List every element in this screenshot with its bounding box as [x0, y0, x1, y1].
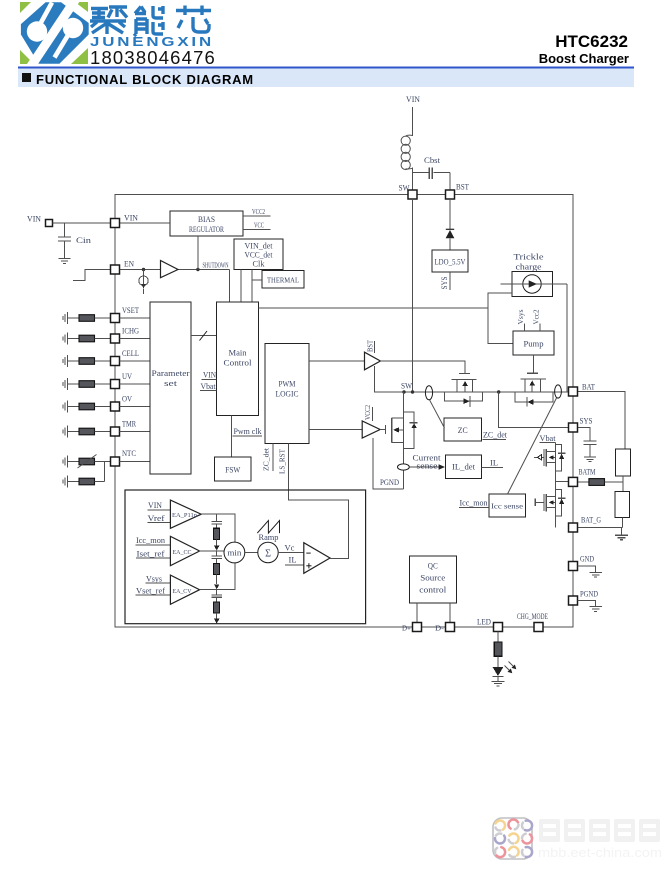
pin EN [111, 265, 120, 274]
svg-text:PGND: PGND [580, 589, 598, 599]
ground (GND pin) [589, 572, 602, 577]
wire EN internal [120, 269, 230, 271]
svg-text:LOGIC: LOGIC [276, 389, 299, 399]
pin SYS [569, 423, 578, 432]
svg-text:BAT_G: BAT_G [581, 515, 601, 525]
svg-text:D+: D+ [402, 624, 411, 633]
left pin group: OV [63, 401, 150, 413]
net Vcc2 stub [539, 324, 541, 332]
svg-text:min: min [227, 548, 242, 558]
IC boundary [115, 195, 573, 628]
resistor BATM [578, 481, 589, 483]
block Main Control [217, 302, 259, 416]
svg-text:VIN: VIN [148, 500, 162, 510]
left pin group: TMR [63, 426, 150, 438]
min circle [224, 542, 245, 563]
svg-text:IL: IL [289, 554, 297, 564]
svg-text:OV: OV [122, 394, 133, 404]
wire main control to FSW [231, 416, 233, 458]
wire det to main control [240, 269, 242, 302]
svg-text:Icc sense: Icc sense [491, 502, 524, 511]
svg-text:Pwm clk: Pwm clk [234, 426, 263, 436]
svg-text:IL: IL [490, 458, 498, 468]
node LS drain [402, 390, 405, 393]
svg-text:GND: GND [580, 554, 594, 564]
svg-text:EA_P11n: EA_P11n [172, 512, 198, 519]
svg-text:SHUTDOWN: SHUTDOWN [203, 261, 229, 270]
net Vc [278, 552, 304, 554]
wire VIN pin to bias [120, 222, 171, 224]
wire vcc2 rail to trickle and pump [488, 293, 513, 344]
current source trickle [523, 275, 541, 293]
transistor M1 (sync MOSFET) [445, 374, 483, 407]
svg-text:BST: BST [456, 182, 470, 192]
svg-text:Trickle: Trickle [514, 252, 544, 262]
wire min to sum [245, 552, 258, 554]
company logo mark [20, 0, 89, 70]
left pin group: NTC thermistor [63, 455, 150, 469]
ground (SYS cap) [584, 457, 596, 462]
driver BST (high side) [309, 360, 365, 362]
svg-text:ZC_det: ZC_det [262, 447, 271, 471]
svg-text:FSW: FSW [225, 465, 240, 475]
svg-text:TMR: TMR [122, 419, 136, 429]
pin BAT_G [569, 523, 578, 532]
capacitor SYS [578, 428, 597, 457]
svg-text:Source: Source [420, 573, 445, 583]
svg-text:PWM: PWM [279, 379, 296, 389]
svg-text:mbb.eet-china.com: mbb.eet-china.com [538, 845, 662, 860]
wire VIN input [53, 222, 111, 224]
svg-text:D-: D- [435, 624, 445, 633]
wire trickle output to BAT [566, 284, 568, 392]
current source I1 [139, 270, 148, 295]
svg-text:VCC2: VCC2 [252, 207, 265, 216]
node SW rail [411, 390, 414, 393]
net Vsys stub [523, 324, 525, 332]
net VCC output [243, 229, 270, 231]
svg-text:Vsys: Vsys [146, 573, 162, 583]
pin GND [569, 562, 578, 571]
svg-text:Parameter: Parameter [152, 368, 190, 378]
svg-text:sense: sense [417, 461, 438, 471]
svg-text:Icc_mon: Icc_mon [136, 535, 166, 545]
inductor L1 [401, 135, 412, 169]
wire zc diagonal [430, 400, 445, 428]
resistor R2 [615, 492, 630, 518]
wire shutdown to main control [228, 270, 230, 303]
svg-text:Cin: Cin [76, 235, 92, 245]
LED chain [493, 632, 504, 682]
compensation chain 1 [212, 514, 222, 550]
svg-text:Pump: Pump [524, 339, 544, 349]
transistor M2 (output MOSFET) [515, 355, 553, 407]
svg-text:Vref: Vref [148, 513, 165, 523]
svg-text:Vsys: Vsys [516, 309, 525, 324]
net VCC2 output [243, 215, 270, 217]
svg-text:BIAS: BIAS [198, 214, 215, 224]
block BIAS REGULATOR [170, 211, 243, 236]
block Pump [513, 331, 554, 355]
compensation chain 3 [212, 590, 222, 624]
svg-text:SW: SW [401, 381, 412, 391]
sum circle [258, 542, 278, 562]
svg-text:Main: Main [229, 348, 248, 358]
bus parameter to main control [191, 335, 217, 337]
svg-text:IL_det: IL_det [452, 462, 476, 472]
wire thermal [252, 279, 262, 281]
wire SYS net [499, 392, 569, 428]
svg-text:set: set [164, 378, 178, 388]
svg-text:LS_RST: LS_RST [278, 449, 287, 474]
left pin group: UV [63, 378, 150, 390]
svg-text:EA_CC: EA_CC [173, 549, 192, 556]
comparator PWM [304, 543, 330, 574]
wire icc diagonal [508, 398, 557, 494]
node SYS tap [497, 390, 500, 393]
wire QC to D- [449, 603, 451, 622]
header rule [18, 67, 634, 69]
sawtooth Ramp [257, 521, 279, 534]
wire BATM junction [556, 481, 569, 483]
svg-text:EA_CV: EA_CV [173, 588, 192, 595]
resistor NTC lower [63, 462, 104, 488]
svg-text:Iset_ref: Iset_ref [137, 548, 165, 558]
ground (LED) [492, 681, 505, 686]
sense oval IL [398, 464, 410, 470]
left pin group: CELL [63, 355, 150, 367]
svg-text:VIN: VIN [203, 370, 216, 380]
wire comparator output [330, 557, 349, 559]
pin BAT [569, 387, 578, 396]
buffer EN [161, 261, 179, 278]
pin VIN [111, 219, 120, 228]
block IL_det [446, 455, 482, 478]
svg-text:BATM: BATM [579, 467, 596, 477]
wire BAT to resistor divider [578, 392, 626, 449]
wire SW vertical [412, 199, 414, 392]
sense oval ZC [425, 386, 432, 400]
company name Chinese glyph approximations [90, 6, 211, 37]
sense oval Icc [555, 385, 562, 398]
node EN junction [142, 268, 145, 271]
wire EA1 output [201, 514, 235, 542]
svg-text:Control: Control [224, 358, 253, 368]
wire LS source to PGND [373, 438, 404, 489]
LED light arrows [505, 662, 517, 674]
svg-text:ZC: ZC [458, 425, 468, 435]
transistor M3 (low side MOSFET) [380, 392, 418, 449]
net ZC_det stub [272, 444, 274, 472]
svg-text:Cbst: Cbst [424, 155, 441, 165]
svg-text:PGND: PGND [380, 477, 399, 487]
svg-text:UV: UV [122, 371, 133, 381]
svg-text:ZC_det: ZC_det [483, 430, 508, 440]
wire EA3 output [200, 563, 235, 590]
svg-text:THERMAL: THERMAL [267, 276, 299, 285]
wire BAT_G net [578, 527, 623, 529]
svg-text:Clk: Clk [253, 259, 266, 269]
wire det2 to main control [251, 269, 253, 302]
svg-text:SYS: SYS [439, 276, 449, 289]
wire QC to D+ [416, 603, 418, 622]
pin LED [494, 623, 503, 632]
compensation chain 2 [212, 551, 222, 589]
svg-text:VIN: VIN [406, 94, 420, 104]
capacitor Cin [58, 223, 71, 258]
svg-text:VSET: VSET [122, 305, 140, 315]
transistor Q2 (battery PMOS lower) [535, 482, 565, 528]
resistor R1 [616, 449, 631, 476]
svg-text:SYS: SYS [580, 416, 593, 426]
pin D+ [413, 623, 422, 632]
block VIN_det VCC_det Clk [234, 239, 283, 269]
watermark logo arcs [495, 820, 532, 858]
svg-text:Icc_mon: Icc_mon [460, 498, 489, 508]
pin BST [446, 190, 455, 199]
rail VCC2 to pump [258, 307, 488, 309]
svg-text:VIN: VIN [27, 214, 41, 224]
svg-text:VCC2: VCC2 [363, 405, 372, 420]
wire PGND [578, 601, 596, 607]
ground (divider) [615, 528, 628, 540]
svg-text:Vcc2: Vcc2 [532, 309, 541, 324]
svg-text:REGULATOR: REGULATOR [189, 224, 224, 234]
wire EA2 output [200, 550, 224, 552]
node SHUTDOWN [196, 268, 199, 271]
svg-text:LDO_5.5V: LDO_5.5V [435, 257, 467, 267]
wire driver to gate M1 [380, 361, 464, 374]
net SYS stub under LDO [449, 272, 451, 290]
diode D1 [446, 199, 455, 250]
block FSW [215, 457, 251, 481]
svg-text:control: control [419, 585, 447, 595]
svg-text:VCC: VCC [254, 221, 264, 230]
svg-text:Σ: Σ [265, 549, 271, 560]
svg-text:NTC: NTC [122, 448, 136, 458]
wire GND [578, 566, 596, 572]
transistor Q1 (battery PMOS upper) [534, 445, 566, 471]
driver VCC2 (low side) [309, 429, 362, 431]
block Parameter set [150, 302, 191, 474]
net LS_RST wire [289, 444, 349, 559]
ground (Cin) [59, 259, 71, 264]
wire power rail SW to BAT [374, 391, 569, 393]
pin BATM [569, 477, 578, 486]
wire driver elbow to SW node [374, 366, 412, 392]
pin SW [408, 190, 417, 199]
watermark logo tile [493, 818, 532, 859]
left pin group: ICHG [63, 333, 150, 345]
svg-text:charge: charge [516, 262, 542, 272]
section banner [18, 69, 634, 88]
pin PGND [569, 596, 578, 605]
block THERMAL [262, 271, 304, 289]
svg-text:EN: EN [124, 259, 134, 269]
block error amplifier section [125, 490, 366, 624]
wire bias to shutdown [197, 236, 199, 270]
svg-text:SW: SW [399, 183, 410, 193]
svg-text:Vbat: Vbat [201, 381, 217, 391]
ground (PGND pin) [589, 607, 602, 612]
svg-text:LED: LED [477, 617, 491, 627]
svg-text:Vbat: Vbat [540, 433, 557, 443]
EN step annotation [73, 270, 111, 281]
block LDO_5.5V [432, 250, 468, 272]
pin D- [446, 623, 455, 632]
svg-text:BST: BST [366, 340, 375, 352]
svg-text:CHG_MODE: CHG_MODE [517, 611, 548, 621]
svg-text:Vc: Vc [285, 543, 295, 553]
faint chinese text blocks [539, 819, 660, 842]
pin CHG_MODE [534, 623, 543, 632]
svg-text:QC: QC [428, 561, 438, 571]
svg-text:BAT: BAT [582, 382, 596, 392]
block QC Source control [409, 556, 456, 603]
left pin group: VSET [63, 312, 150, 324]
svg-text:ICHG: ICHG [122, 326, 139, 336]
block Icc sense [489, 494, 526, 517]
block ZC [444, 418, 482, 441]
svg-text:CELL: CELL [122, 348, 139, 358]
block PWM LOGIC [265, 343, 309, 443]
svg-text:Vset_ref: Vset_ref [136, 586, 165, 596]
svg-text:VIN: VIN [124, 213, 138, 223]
svg-text:Ramp: Ramp [259, 532, 279, 542]
